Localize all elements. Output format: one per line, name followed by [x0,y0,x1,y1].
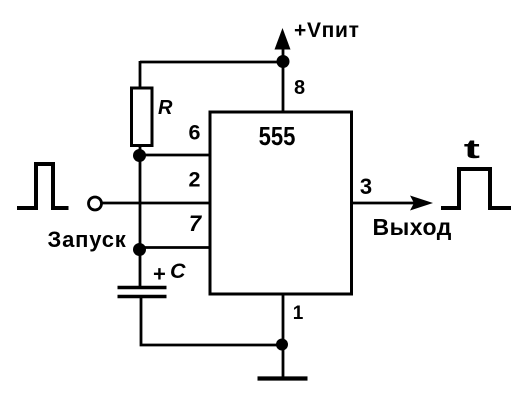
svg-text:C: C [170,259,186,283]
svg-text:8: 8 [294,77,305,99]
svg-text:Запуск: Запуск [48,227,127,252]
svg-text:+: + [153,262,166,287]
svg-text:2: 2 [189,167,201,191]
svg-text:7: 7 [189,211,203,236]
svg-text:555: 555 [259,122,296,151]
svg-text:3: 3 [360,174,372,199]
svg-text:+Vпит: +Vпит [294,19,360,42]
svg-text:t: t [464,134,480,164]
svg-text:6: 6 [189,120,201,144]
svg-text:R: R [158,97,173,119]
svg-text:Выход: Выход [373,214,452,240]
svg-text:1: 1 [293,303,304,324]
